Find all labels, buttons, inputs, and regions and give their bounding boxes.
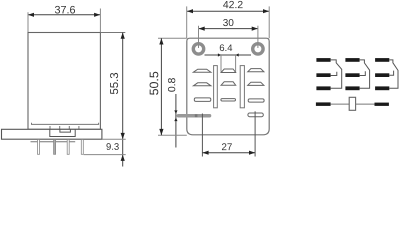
socket pin 2 <box>54 140 56 155</box>
slot trapezoid mid row2 <box>221 82 236 85</box>
dimension line 6.4 <box>205 54 252 56</box>
arrow left 42.2 <box>187 9 193 13</box>
dimension line 42.2 <box>187 10 269 12</box>
relay body rectangle <box>28 33 100 130</box>
socket pin 1 <box>38 140 40 155</box>
pole 2 NC terminal <box>345 58 359 62</box>
slot bar left row4 gray <box>177 114 212 118</box>
socket pin 3 <box>67 140 69 155</box>
pole 3 COM terminal <box>375 86 389 90</box>
center bar left <box>214 66 218 108</box>
arrow right 42.2 <box>263 9 269 13</box>
dimension text 6.4 <box>220 44 232 51</box>
arrow left 30 <box>199 27 205 31</box>
center bar right <box>240 66 244 108</box>
arrow 0.8 down <box>174 110 177 114</box>
socket flange <box>2 129 102 139</box>
dimension line 30 <box>199 28 258 30</box>
socket lip tray <box>32 123 99 125</box>
pole 2 NC wire and movable arm <box>360 60 370 88</box>
extension line 6.4 right <box>235 55 237 72</box>
extension line 9.3 top <box>102 138 126 140</box>
dimension line 27 <box>202 152 255 154</box>
dimension text 0.8 rotated <box>168 78 175 92</box>
pole 1 NC terminal <box>316 58 330 62</box>
relay pin tick 3 <box>68 126 70 130</box>
extension line 27 right <box>254 111 256 156</box>
coil box <box>349 97 355 110</box>
arrow 6.4 right inward <box>236 53 239 56</box>
arrow down 50.5 <box>159 129 163 135</box>
extension line 9.3 bottom <box>84 154 126 156</box>
extension line 42.2 right <box>268 6 270 38</box>
extension line 50.5 top <box>158 37 187 39</box>
coil wire left <box>331 103 350 105</box>
arrow right 30 <box>252 27 258 31</box>
flange notch outer <box>50 129 75 136</box>
mounting hole left <box>193 44 203 54</box>
pole 1 NC wire and movable arm <box>331 60 342 88</box>
dimension text 27 <box>222 143 232 150</box>
extension line 42.2 left <box>186 6 188 38</box>
arrow 6.4 left inward <box>218 53 221 56</box>
arrow left 27 <box>202 151 208 155</box>
slot bar mid row3 <box>221 99 236 101</box>
slot trapezoid right row1 <box>248 69 264 72</box>
slot trapezoid left row2 <box>193 83 211 86</box>
socket pin 4 <box>81 140 83 155</box>
dimension line 55.3 vertical <box>122 33 124 167</box>
dimension line 37.6 <box>28 14 100 16</box>
dimension text 37.6 <box>55 6 75 14</box>
slot bar right row4 <box>248 113 263 117</box>
slot trapezoid right row2 <box>248 82 264 85</box>
socket body rounded rectangle <box>187 38 269 135</box>
pole 3 NO terminal <box>375 73 389 77</box>
slot trapezoid mid row1 <box>221 69 236 73</box>
dimension line 50.5 vertical <box>160 38 162 135</box>
pole 2 NO wire <box>360 71 366 75</box>
dimension text 50.5 rotated <box>150 72 159 95</box>
extension line right (body right edge up) <box>99 9 101 33</box>
slot bar right row3 <box>248 99 264 102</box>
dimension line 0.8 vertical <box>175 94 177 148</box>
pole 3 NC terminal <box>375 58 389 62</box>
slot trapezoid left row1 <box>193 69 211 72</box>
arrow right 37.6 <box>94 13 100 17</box>
extension line 6.4 left <box>220 55 222 72</box>
extension line left (body left edge up) <box>27 12 29 32</box>
slot bar left row4 dark segment <box>195 114 198 117</box>
relay pin tick 4 <box>78 126 80 130</box>
relay pin tick 1 <box>49 126 51 130</box>
coil wire right <box>356 103 375 105</box>
pole 2 COM terminal <box>345 86 359 90</box>
flange notch inner <box>60 129 71 132</box>
extension line top for 55.3 <box>100 32 125 34</box>
flange lower line <box>31 141 76 143</box>
extension line 50.5 bottom <box>158 134 187 136</box>
coil terminal right <box>375 103 389 106</box>
arrow up 50.5 <box>159 38 163 44</box>
dimension text 42.2 <box>223 1 242 8</box>
relay pin tick 2 <box>59 126 61 130</box>
arrow 0.8 up <box>174 118 177 122</box>
dimension text 30 <box>223 19 233 26</box>
slot bar left row3 <box>194 98 211 102</box>
dimension text 9.3 <box>106 143 118 150</box>
arrow right 27 <box>249 151 255 155</box>
mounting hole right <box>253 44 263 54</box>
extension line 27 left <box>201 114 203 157</box>
arrow up 9.3 bottom <box>121 155 125 161</box>
pole 2 NO terminal <box>345 73 359 77</box>
dimension text 55.3 rotated <box>110 73 118 94</box>
arrow up 55.3 top <box>121 33 125 39</box>
pole 1 NO terminal <box>316 73 330 77</box>
extension line 30 right into circle <box>257 26 259 48</box>
pole 1 COM terminal <box>316 86 330 90</box>
pole 3 NC wire and movable arm <box>389 60 398 88</box>
pole 3 NO wire <box>389 71 393 76</box>
pole 1 NO wire <box>331 72 337 76</box>
arrow down 55.3 bottom / 9.3 top <box>121 133 125 139</box>
extension line 30 left into circle <box>198 26 200 48</box>
arrow left 37.6 <box>28 13 34 17</box>
coil terminal left <box>316 102 331 106</box>
